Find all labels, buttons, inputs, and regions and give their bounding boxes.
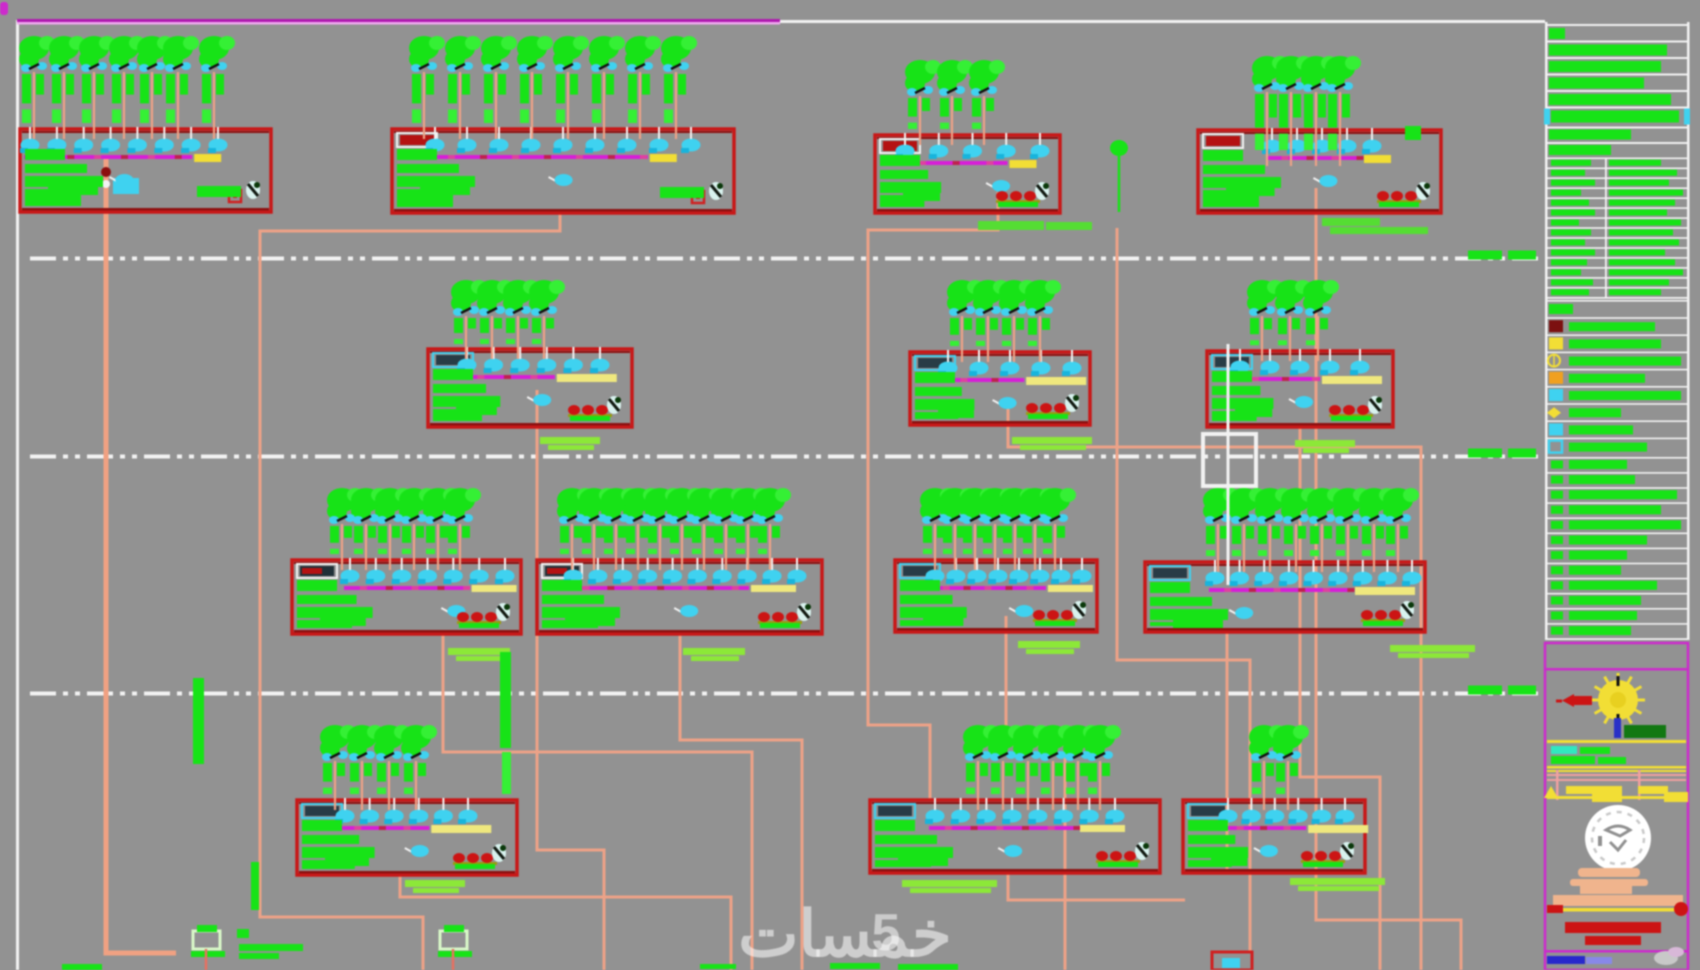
tap breaker on W1: [113, 178, 139, 194]
wire feeder W9: [1008, 872, 1185, 900]
revision bar: [1547, 956, 1612, 964]
feeder tag under DB-11: [1390, 645, 1475, 658]
panel DB-10 magenta bus: [929, 586, 1046, 590]
panel DB-10 neutral bar: [1048, 585, 1093, 592]
panel DB-9 name label: [542, 564, 582, 578]
legend note row 11: [1547, 608, 1687, 620]
panel DB-3 magenta bus: [899, 161, 1008, 165]
legend symbol row 8: [1547, 420, 1687, 435]
panel DB-13 breaker row: [925, 798, 1125, 824]
wire feeder W3: [537, 390, 604, 970]
panel DB-6 breaker row: [938, 350, 1082, 376]
panel DB-14 schedule text: [1188, 820, 1248, 867]
svg-text:5: 5: [872, 904, 901, 962]
circuit risers DB-13: [963, 725, 1121, 810]
panel DB-7 enclosure: [1207, 351, 1393, 427]
panel DB-5 magenta bus: [461, 375, 555, 379]
panel DB-2 feeder text: [660, 187, 704, 198]
panel DB-3 breaker row: [895, 133, 1050, 159]
panel DB-14 enclosure: [1183, 800, 1365, 873]
panel DB-13 name label: [875, 804, 915, 818]
bottom connection box: [1212, 952, 1252, 970]
panel DB-13 magenta bus: [929, 826, 1080, 830]
DB-4 corner marker: [1405, 126, 1421, 140]
panel DB-10 breaker row: [925, 558, 1092, 584]
salmon rule lines: [1547, 770, 1686, 800]
panel DB-7 feeder symbol: [1368, 396, 1382, 414]
panel DB-2 magenta bus: [429, 155, 648, 159]
circuit risers DB-4: [1252, 56, 1361, 166]
sheet border top white segment: [780, 20, 1545, 23]
panel DB-5 spare indicator: [568, 405, 612, 421]
legend subtitle row 1: [1547, 127, 1687, 140]
panel DB-5 enclosure: [428, 349, 632, 427]
panel DB-8 enclosure: [292, 560, 521, 634]
legend symbol row 2: [1547, 317, 1687, 332]
panel DB-7 schedule text: [1212, 371, 1273, 421]
feeder tag under DB-6: [1012, 437, 1092, 450]
legend note row 7: [1547, 548, 1687, 560]
legend note row 8: [1547, 563, 1687, 575]
legend outer border: [1545, 22, 1548, 640]
feeder tag under DB-9: [683, 648, 745, 661]
panel DB-8 neutral bar: [472, 585, 517, 592]
panel DB-11 magenta bus: [1209, 588, 1354, 592]
panel DB-4 feeder symbol: [1416, 182, 1430, 200]
panel DB-9 main breaker: [674, 605, 698, 617]
legend title row 2: [1547, 41, 1687, 56]
panel DB-4 main breaker: [1313, 175, 1337, 187]
panel DB-1 magenta bus: [24, 155, 192, 159]
legend note row 4: [1547, 502, 1687, 514]
panel DB-2 main breaker: [549, 174, 573, 186]
feeder tag under DB-13: [902, 880, 997, 893]
panel DB-2 spare box: [692, 191, 704, 203]
panel DB-14 main breaker: [1254, 845, 1278, 857]
panel DB-9 neutral bar: [751, 585, 796, 592]
wire feeder W8b: [1008, 408, 1421, 970]
legend highlighted row: [1544, 107, 1690, 125]
panel DB-11 schedule text: [1150, 582, 1228, 628]
panel DB-3 neutral bar: [1010, 160, 1037, 168]
riser note column C: [251, 862, 259, 910]
wire feeder W5: [680, 633, 802, 970]
stamp blob: [1654, 947, 1684, 965]
panel DB-5 main breaker: [527, 394, 551, 406]
panel DB-10 enclosure: [895, 560, 1097, 632]
circuit risers DB-6: [947, 280, 1061, 362]
wire feeder W2: [260, 212, 560, 970]
panel DB-9 enclosure: [537, 560, 822, 634]
wire feeder W8: [1117, 228, 1250, 952]
panel DB-3 spare indicator: [996, 191, 1040, 207]
wire feeder W12: [1316, 188, 1461, 970]
svg-text:خمسات: خمسات: [738, 898, 951, 970]
circuit risers DB-1: [19, 36, 235, 139]
circuit risers DB-12: [320, 725, 437, 810]
panel DB-5 name label: [433, 353, 473, 367]
legend symbol row 3: [1547, 334, 1687, 349]
company logo: [1585, 805, 1651, 871]
panel DB-2 feeder symbol: [709, 182, 723, 200]
panel DB-12 enclosure: [297, 800, 517, 875]
panel DB-6 main breaker: [993, 397, 1017, 409]
panel DB-14 name label: [1188, 804, 1228, 818]
panel DB-14 breaker row: [1218, 798, 1355, 824]
panel DB-6 neutral bar: [1026, 377, 1086, 385]
panel DB-2 enclosure: [392, 129, 734, 213]
panel DB-7 main breaker: [1289, 396, 1313, 408]
panel DB-3 main breaker: [986, 180, 1010, 192]
panel DB-12 neutral bar: [431, 825, 491, 833]
lone circuit riser node K: [1110, 140, 1128, 212]
feeder tag under DB-12: [405, 880, 465, 893]
wire feeder W7: [868, 192, 998, 800]
wire feeder W6: [400, 874, 731, 970]
circuit risers DB-5: [451, 280, 565, 359]
panel DB-7 spare indicator: [1329, 405, 1373, 421]
legend symbol row 1: [1547, 300, 1687, 314]
panel DB-4 schedule text: [1203, 150, 1281, 207]
panel DB-6 name label: [915, 356, 955, 370]
panel DB-12 main breaker: [405, 845, 429, 857]
stamp row yellow: [1544, 786, 1688, 802]
north arrow base: [1614, 718, 1666, 738]
panel DB-3 schedule text: [880, 155, 941, 207]
panel DB-4 spare indicator: [1377, 191, 1421, 207]
legend title row 5: [1547, 90, 1687, 105]
panel DB-10 spare indicator: [1033, 610, 1077, 626]
panel DB-11 spare indicator: [1361, 610, 1405, 626]
panel DB-9 schedule text: [542, 580, 620, 628]
panel DB-11 breaker row: [1205, 560, 1422, 586]
panel DB-10 feeder symbol: [1072, 601, 1086, 619]
junction box JB-1: [191, 925, 225, 970]
circuit risers DB-3: [905, 60, 1005, 145]
legend note row 12: [1547, 623, 1687, 635]
panel DB-13 feeder symbol: [1135, 842, 1149, 860]
panel DB-12 name label: [302, 804, 342, 818]
panel DB-3 feeder symbol: [1035, 182, 1049, 200]
panel DB-4 magenta bus: [1266, 156, 1364, 160]
legend note row 3: [1547, 487, 1687, 499]
legend symbol row 6: [1547, 386, 1687, 401]
panel DB-11 neutral bar: [1355, 587, 1415, 595]
wire feeder W10: [1300, 427, 1380, 970]
panel DB-9 feeder symbol: [797, 603, 811, 621]
wire feeder W4: [443, 633, 752, 970]
address bar: [1553, 886, 1683, 906]
panel DB-11 enclosure: [1145, 562, 1425, 632]
panel DB-12 schedule text: [302, 820, 375, 869]
panel DB-7 name label: [1212, 355, 1252, 369]
panel DB-11 main breaker: [1229, 607, 1253, 619]
bottom green tick: [62, 964, 102, 970]
title block divider 1: [1545, 668, 1688, 671]
panel DB-9 breaker row: [563, 558, 807, 584]
legend symbol row 9: [1547, 438, 1687, 453]
panel DB-6 schedule text: [915, 372, 974, 419]
panel DB-6 spare indicator: [1026, 403, 1070, 419]
panel DB-6 magenta bus: [942, 378, 1024, 382]
panel DB-1 neutral bar: [194, 154, 221, 162]
match line 2: [30, 455, 1540, 459]
panel DB-2 neutral bar: [650, 154, 677, 162]
match line 1: [30, 257, 1540, 261]
legend schedule table: [1547, 158, 1687, 299]
feeder tag under DB-7: [1295, 440, 1355, 453]
wire feeder W11: [1006, 616, 1065, 970]
panel DB-11 feeder symbol: [1400, 601, 1414, 619]
circuit risers DB-14: [1249, 725, 1309, 810]
feeder tag under DB-14: [1290, 878, 1385, 891]
panel DB-12 spare indicator: [453, 853, 497, 869]
legend note row 2: [1547, 472, 1687, 484]
panel DB-12 breaker row: [335, 798, 478, 824]
panel DB-1 spare box: [229, 190, 241, 202]
title block frame: [1545, 643, 1688, 970]
panel DB-12 magenta bus: [339, 826, 429, 830]
panel DB-2 name label: [397, 133, 437, 147]
title divider yellow 2: [1547, 766, 1686, 772]
panel DB-2 schedule text: [397, 149, 475, 207]
panel DB-4 breaker row: [1262, 128, 1382, 154]
panel DB-1 feeder symbol: [246, 181, 260, 199]
legend symbol row 4: [1547, 352, 1687, 367]
panel DB-1 schedule text: [25, 149, 103, 206]
panel DB-5 neutral bar: [557, 374, 617, 382]
legend note row 1: [1547, 457, 1687, 469]
legend title row 3: [1547, 57, 1687, 72]
panel DB-4 neutral bar: [1364, 155, 1391, 163]
junction box JB-2: [438, 925, 472, 970]
panel DB-7 neutral bar: [1322, 376, 1382, 384]
legend note row 5: [1547, 517, 1687, 529]
panel DB-10 name label: [900, 564, 940, 578]
selection square: [1203, 434, 1256, 486]
circuit risers DB-9: [557, 488, 791, 570]
red title bar 1: [1565, 922, 1661, 933]
legend note row 6: [1547, 533, 1687, 545]
circuit risers DB-2: [409, 36, 697, 139]
feeder tag under DB-5: [540, 437, 600, 450]
panel DB-5 breaker row: [457, 347, 610, 373]
panel DB-3 enclosure: [875, 135, 1060, 213]
riser note column B: [500, 652, 511, 794]
phone rule: [1547, 902, 1688, 916]
panel DB-10 schedule text: [900, 580, 967, 626]
wire junction dot: [101, 167, 111, 188]
panel DB-9 spare indicator: [758, 612, 802, 628]
panel DB-13 schedule text: [875, 820, 953, 867]
panel DB-13 main breaker: [998, 845, 1022, 857]
panel DB-14 magenta bus: [1222, 826, 1306, 830]
north arrow: [1591, 673, 1645, 727]
selection crosshair: [1227, 344, 1230, 585]
feeder tag under DB-3: [978, 221, 1092, 230]
match line label: [1468, 251, 1536, 260]
panel DB-8 main breaker: [441, 605, 465, 617]
logo arabic text: [1570, 868, 1648, 886]
panel DB-1 feeder text: [197, 186, 241, 197]
circuit risers DB-8: [327, 488, 481, 570]
legend title row 1: [1547, 24, 1687, 39]
panel DB-6 enclosure: [910, 352, 1090, 425]
panel DB-13 neutral bar: [1080, 825, 1125, 832]
panel DB-1 breaker row: [20, 127, 228, 153]
panel DB-6 feeder symbol: [1065, 394, 1079, 412]
panel DB-5 schedule text: [433, 369, 500, 421]
feeder tag under DB-8: [448, 648, 510, 661]
bottom edge notes: [700, 963, 958, 970]
panel DB-8 name label: [297, 564, 337, 578]
legend title row 4: [1547, 74, 1687, 89]
panel DB-3 name label: [880, 139, 920, 153]
north arrow pointer: [1556, 694, 1592, 707]
circuit risers DB-7: [1247, 280, 1339, 361]
project name text: [1551, 746, 1626, 764]
panel DB-8 magenta bus: [344, 586, 470, 590]
panel DB-14 spare indicator: [1301, 851, 1345, 867]
panel DB-8 feeder symbol: [496, 603, 510, 621]
panel DB-5 feeder symbol: [607, 396, 621, 414]
legend note row 10: [1547, 593, 1687, 605]
legend subtitle row 2: [1547, 142, 1687, 155]
wire feeder W13: [1226, 632, 1229, 870]
red title bar 2: [1585, 936, 1641, 945]
panel DB-11 name label: [1150, 566, 1190, 580]
panel DB-13 spare indicator: [1096, 851, 1140, 867]
match line 3: [30, 692, 1540, 696]
feeder tag under DB-4: [1322, 218, 1428, 234]
legend note row 9: [1547, 578, 1687, 590]
legend symbol row 7: [1547, 403, 1687, 418]
riser note column A: [193, 678, 204, 764]
panel DB-9 magenta bus: [567, 586, 749, 590]
circuit risers DB-10: [920, 488, 1076, 570]
panel DB-2 breaker row: [425, 127, 701, 153]
panel DB-7 magenta bus: [1234, 377, 1320, 381]
panel DB-7 breaker row: [1230, 349, 1370, 375]
title divider magenta: [1546, 950, 1687, 953]
title divider yellow 1: [1547, 740, 1686, 743]
bottom note text: [237, 929, 303, 959]
panel DB-4 enclosure: [1198, 130, 1441, 213]
panel DB-1 main breaker: [109, 174, 133, 186]
panel DB-10 main breaker: [1009, 605, 1033, 617]
sheet border left: [16, 20, 19, 970]
panel DB-1 enclosure: [20, 129, 271, 212]
circuit risers DB-11: [1203, 488, 1419, 572]
panel DB-8 spare indicator: [457, 612, 501, 628]
panel DB-4 name label: [1203, 134, 1243, 148]
corner glyph: [0, 2, 8, 15]
wire feeder W1: [106, 158, 176, 953]
match line label: [1468, 686, 1536, 695]
panel DB-14 feeder symbol: [1340, 842, 1354, 860]
panel DB-8 schedule text: [297, 580, 373, 628]
panel DB-14 neutral bar: [1308, 825, 1368, 833]
match line label: [1468, 449, 1536, 458]
sheet border top magenta segment: [17, 19, 780, 25]
feeder tag under DB-10: [1018, 641, 1080, 654]
panel DB-13 enclosure: [870, 800, 1160, 873]
panel DB-12 feeder symbol: [492, 844, 506, 862]
legend symbol row 5: [1547, 369, 1687, 384]
panel DB-8 breaker row: [340, 558, 515, 584]
